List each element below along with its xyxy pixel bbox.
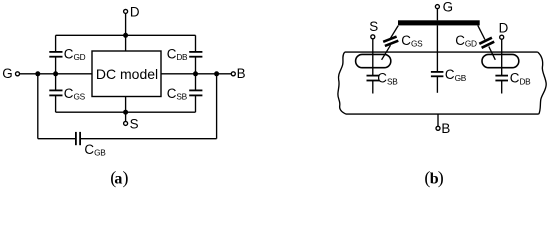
wire gate to CGB (436, 25, 438, 72)
svg-text:DC model: DC model (96, 66, 158, 82)
svg-text:CSB: CSB (167, 86, 188, 102)
wire G lead b (436, 9, 438, 20)
terminal G circle (16, 72, 20, 76)
terminal G circle b (435, 5, 439, 9)
node D dot (123, 33, 128, 38)
capacitor CGD diagonal (478, 25, 496, 59)
svg-text:D: D (499, 21, 509, 36)
terminal S circle (124, 121, 128, 125)
svg-text:CGD: CGD (455, 33, 477, 49)
svg-text:CGB: CGB (84, 142, 106, 158)
wire left drop (37, 74, 39, 139)
node S dot (123, 110, 128, 115)
terminal B circle (231, 72, 235, 76)
svg-text:CGS: CGS (64, 86, 86, 102)
capacitor CGB (76, 132, 80, 145)
capacitor CDB b (495, 76, 508, 94)
svg-text:CSB: CSB (377, 71, 398, 87)
wire S to CSB (372, 39, 374, 76)
terminal D circle (124, 9, 128, 13)
wire B lead b (437, 114, 439, 126)
capacitor CSB (189, 74, 202, 112)
svg-text:CGB: CGB (445, 67, 467, 83)
svg-text:G: G (2, 66, 12, 81)
capacitor CGB b (431, 72, 444, 93)
svg-text:S: S (130, 117, 139, 132)
node G-CGB dot (35, 71, 40, 76)
node B-CDB dot (193, 71, 198, 76)
wire S branch (125, 97, 127, 122)
svg-text:CDB: CDB (167, 46, 188, 62)
node B-CGB dot (214, 71, 219, 76)
wire B rail (161, 73, 231, 75)
wire S rail (56, 111, 196, 113)
terminal D circle b (500, 35, 504, 39)
wire right drop (216, 74, 218, 139)
substrate bottom edge (346, 113, 539, 115)
svg-text:G: G (443, 0, 453, 15)
capacitor CSB b (367, 76, 380, 94)
wire bottom rail right (80, 138, 217, 140)
terminal B circle b (436, 126, 440, 130)
capacitor CDB (189, 35, 202, 74)
wire top rail D (56, 34, 196, 36)
svg-text:CGD: CGD (64, 46, 86, 62)
svg-text:(a): (a) (110, 168, 128, 189)
wire D to CDB (501, 39, 503, 75)
wire D branch (125, 14, 127, 51)
capacitor CGD (49, 35, 62, 74)
wire bottom rail left (38, 138, 76, 140)
box DC model (92, 51, 161, 97)
svg-text:B: B (441, 121, 450, 136)
capacitor CGS (49, 74, 62, 112)
substrate left torn edge (338, 52, 346, 114)
substrate top edge (345, 51, 538, 53)
drain diffusion tub (482, 54, 519, 67)
svg-text:CDB: CDB (510, 71, 531, 87)
source diffusion tub (356, 54, 391, 67)
wire G rail (20, 73, 92, 75)
substrate right torn edge (538, 52, 546, 114)
gate bar (398, 20, 480, 25)
svg-text:CGS: CGS (401, 33, 423, 49)
capacitor CGS diagonal (382, 26, 399, 60)
svg-text:(b): (b) (424, 168, 443, 189)
svg-text:B: B (237, 66, 246, 81)
svg-text:S: S (369, 19, 378, 34)
svg-text:D: D (130, 4, 140, 19)
terminal S circle b (371, 35, 375, 39)
node G-CGD dot (53, 71, 58, 76)
